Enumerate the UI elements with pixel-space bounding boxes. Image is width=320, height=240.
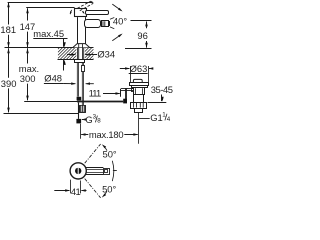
- arrowhead 181 top: [7, 2, 10, 7]
- aerator bands: [103, 21, 105, 26]
- deck bottom line left: [58, 59, 77, 61]
- ext line 41 left: [70, 180, 72, 194]
- shank through deck: [78, 44, 84, 59]
- aerator cone stub upper: [110, 18, 114, 20]
- svg-text:390: 390: [1, 78, 17, 89]
- arrowhead max45 down: [63, 42, 66, 47]
- lever solid horizontal: [86, 11, 109, 15]
- waste body upper: [134, 88, 145, 95]
- ref line top of raised lever: [8, 2, 92, 4]
- waste tailpipe: [135, 109, 143, 113]
- lever swing arrow left: [69, 11, 71, 15]
- ext line waste center: [138, 113, 140, 144]
- waste flange: [130, 83, 149, 86]
- arrowhead Ø63 left: [125, 67, 130, 69]
- aerator swivel arrow lower: [118, 33, 123, 38]
- dim leader Ø34: [85, 54, 97, 56]
- lever swing arc mark right: [82, 12, 84, 14]
- G1 1/4 fraction slash: [165, 114, 167, 121]
- plan spout bottom edge: [86, 174, 104, 176]
- dim line max45 tail: [63, 60, 65, 71]
- dim arrow Ø48 right line: [86, 83, 94, 85]
- arrowhead 147 top: [26, 8, 29, 13]
- swivel dash-dot line upper: [85, 144, 101, 163]
- svg-text:300: 300: [20, 73, 36, 84]
- underline Ø48: [44, 83, 64, 85]
- dim line 390 lower: [8, 88, 10, 112]
- svg-text:8: 8: [97, 118, 101, 125]
- arrowhead Ø63 right: [149, 67, 154, 69]
- body column right edge: [85, 17, 87, 43]
- arrowhead max300 top: [26, 48, 29, 53]
- dim line 181 upper: [8, 2, 10, 24]
- arrowhead Ø48 right: [85, 82, 90, 84]
- ref line end of hoses max300: [24, 101, 77, 103]
- ext line 41 right: [80, 181, 82, 194]
- arrowhead 96 top: [145, 21, 148, 26]
- ext line rod center: [80, 124, 82, 139]
- mounting nut: [75, 60, 85, 63]
- dim line 147 lower: [27, 32, 29, 47]
- svg-text:50°: 50°: [103, 148, 117, 159]
- waste mounting nut: [131, 103, 147, 109]
- ref line top of body: [26, 7, 74, 9]
- arrowhead Ø34 left: [71, 53, 76, 55]
- arrowhead max300 bottom: [26, 96, 29, 101]
- arrowhead 111 right: [116, 92, 121, 94]
- arrowhead 41 left: [65, 189, 70, 191]
- G1 1/4 leader: [139, 118, 150, 120]
- arrowhead 96 bottom: [145, 43, 148, 48]
- dim line max300 lower: [27, 84, 29, 101]
- swivel arc lower: [105, 191, 108, 195]
- underline max.45: [33, 38, 67, 40]
- aerator swivel arc upper: [112, 4, 121, 11]
- aerator: [102, 21, 109, 27]
- aerator swivel arc lower: [112, 34, 121, 40]
- waste horizontal arm bottom: [121, 90, 133, 92]
- ext line Ø63 right: [148, 66, 150, 82]
- arrowhead max45 up: [63, 60, 66, 65]
- deck hatching right: [85, 48, 94, 59]
- plan spout inner bottom: [86, 172, 103, 174]
- arrowhead 390 bottom: [7, 108, 10, 113]
- plan view body circle: [70, 163, 86, 179]
- dim line 111 right: [103, 93, 120, 95]
- waste body lower: [134, 95, 144, 103]
- dim line 181 lower: [8, 35, 10, 47]
- swivel arrow upper: [101, 143, 106, 148]
- ext line Ø63 left: [130, 66, 132, 82]
- dim line 96 lower: [146, 41, 148, 48]
- svg-text:111: 111: [89, 88, 101, 99]
- svg-text:max.180: max.180: [89, 129, 124, 140]
- aerator cone stub lower: [110, 27, 114, 29]
- ref line end of pull rod 390: [4, 113, 79, 115]
- spout: [85, 20, 101, 28]
- plan spout inner top: [86, 169, 103, 171]
- lever swing arrow right: [82, 11, 85, 15]
- svg-text:35-45: 35-45: [151, 84, 173, 95]
- waste vertical link right: [126, 89, 128, 102]
- svg-text:181: 181: [0, 24, 16, 35]
- arrowhead 181 bottom: [7, 42, 10, 47]
- swivel arrow lower: [101, 193, 106, 198]
- dim line max300 upper: [27, 48, 29, 63]
- arrowhead max180 right: [133, 133, 138, 135]
- deck top surface line: [5, 47, 94, 49]
- swivel arc middle: [112, 161, 113, 181]
- dim line 96 upper: [146, 22, 148, 29]
- plan spout cap inner: [105, 170, 108, 173]
- lever raised dashed position: [77, 1, 93, 11]
- swivel dash-dot line lower: [85, 179, 101, 198]
- svg-text:Ø34: Ø34: [97, 49, 115, 60]
- ref line spout axis right: [131, 20, 152, 22]
- dim arrow Ø63 left line: [120, 68, 130, 70]
- svg-text:G1: G1: [150, 112, 163, 123]
- arrowhead 41 right: [81, 189, 86, 191]
- swivel arc upper: [105, 147, 108, 151]
- deck bottom line right: [85, 59, 94, 61]
- dim line 390 upper: [8, 48, 10, 78]
- axis tick: [113, 170, 117, 172]
- deck hatching left: [58, 48, 76, 59]
- hose fitting upper right: [82, 66, 85, 72]
- dim line 41 left: [54, 190, 69, 192]
- aerator tip: [109, 22, 110, 26]
- rod coupler on hose end: [77, 97, 82, 101]
- dim line max45 upper: [63, 39, 65, 47]
- waste arm entry: [132, 89, 134, 92]
- pull rod lower: [78, 103, 80, 119]
- ext line 111 right: [120, 89, 122, 97]
- svg-text:41: 41: [71, 186, 81, 197]
- arrowhead max180 left: [81, 133, 86, 135]
- underline Ø63: [129, 73, 148, 75]
- lever swing arc mark left: [70, 10, 72, 14]
- svg-text:max.45: max.45: [33, 28, 64, 39]
- plan view rod hole: [75, 168, 81, 174]
- arrowhead Ø34 right: [85, 53, 90, 55]
- dim line max180 right: [124, 134, 137, 136]
- aerator swivel arrow upper: [118, 8, 123, 13]
- waste horizontal arm top: [121, 88, 133, 90]
- plan spout cap: [104, 169, 110, 175]
- dim line 147 upper: [27, 8, 29, 20]
- hose nut lower: [80, 106, 86, 113]
- plan spout top edge: [86, 167, 104, 169]
- waste rod coupler: [123, 99, 127, 104]
- arrowhead G38 leader: [81, 118, 86, 120]
- base escutcheon: [73, 44, 90, 48]
- dim line 35-45: [161, 95, 163, 102]
- waste vertical link left: [125, 89, 127, 102]
- arrowhead 390 top: [7, 48, 10, 53]
- ref line waste nut top: [148, 102, 167, 104]
- svg-text:4: 4: [167, 116, 171, 123]
- svg-text:G: G: [85, 114, 92, 125]
- svg-text:96: 96: [137, 30, 147, 41]
- waste nut facets: [134, 102, 144, 107]
- body column left edge: [77, 17, 79, 43]
- supply hoses bundle: [77, 63, 83, 106]
- waste link top cap: [125, 88, 128, 90]
- arrowhead Ø48 left: [71, 82, 76, 84]
- waste plug dome: [133, 79, 142, 82]
- faucet cartridge box: [75, 9, 87, 17]
- waste body facets: [135, 88, 142, 94]
- svg-text:50°: 50°: [102, 183, 116, 194]
- svg-text:Ø63: Ø63: [130, 63, 148, 74]
- svg-text:40°: 40°: [113, 16, 127, 27]
- hose nut facets: [81, 106, 83, 112]
- G3/8 fraction slash: [95, 116, 97, 123]
- horizontal pop-up rod: [77, 101, 123, 103]
- arrowhead 147 bottom: [26, 42, 29, 47]
- arrowhead 35-45 down: [161, 97, 163, 102]
- pull rod knob: [76, 119, 81, 124]
- waste flange lower band: [132, 86, 148, 88]
- ref line deck level right: [125, 48, 152, 50]
- dim arrow Ø48 left line: [64, 83, 76, 85]
- svg-text:Ø48: Ø48: [44, 73, 62, 84]
- dim arrow Ø34 left: [67, 54, 75, 56]
